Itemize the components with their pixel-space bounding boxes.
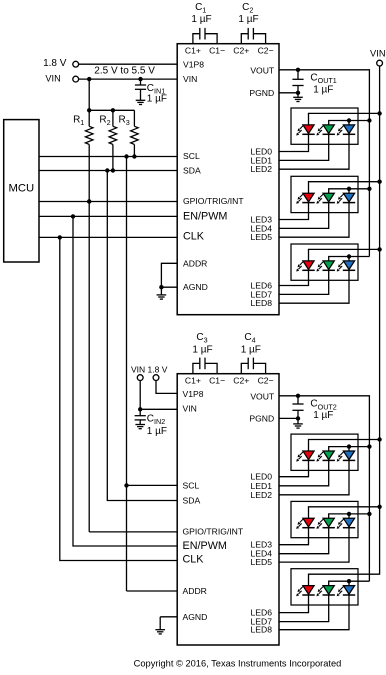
LED blue D6 <box>337 193 356 204</box>
svg-text:1 µF: 1 µF <box>147 94 167 105</box>
label C3 <box>196 332 207 344</box>
wire red LED anode to VIN rail (group LED) <box>309 574 380 586</box>
wire green/blue LED anodes to VOUT rail (group LED) <box>329 579 370 586</box>
RGB LED module box (group LED) <box>291 176 358 212</box>
wire VIN to IC2 VIN <box>138 381 177 412</box>
LED red D4 <box>296 193 315 204</box>
LED blue D9 <box>337 261 356 272</box>
svg-text:C1+: C1+ <box>185 376 201 386</box>
wire green/blue LED anodes to VOUT rail (group LED) <box>329 118 370 125</box>
label R1 <box>73 115 84 127</box>
svg-text:1 µF: 1 µF <box>313 85 333 96</box>
ground at AGND1 <box>157 287 167 299</box>
LED blue D3 <box>337 125 356 136</box>
wire blue LED cathode to LED2 pin <box>279 528 349 562</box>
label CIN2 value 1 uF <box>147 426 167 437</box>
svg-text:1 µF: 1 µF <box>192 345 212 356</box>
label CIN2 <box>147 414 165 426</box>
op-amp U1 LED driver block <box>177 44 279 315</box>
label COUT1 value 1 uF <box>313 85 333 96</box>
node VIN terminal (IC2) <box>137 375 143 381</box>
svg-text:VOUT: VOUT <box>250 391 275 401</box>
svg-text:ADDR: ADDR <box>183 258 207 268</box>
pin labels U2 right side <box>249 391 275 634</box>
MCU block <box>4 120 39 262</box>
label R2 <box>99 115 110 127</box>
wire red LED cathode to LED0 pin <box>279 135 309 152</box>
wire green/blue LED anodes to VOUT rail (group LED) <box>329 444 370 451</box>
svg-text:LED8: LED8 <box>251 625 273 635</box>
ground below CIN2 <box>135 425 145 429</box>
svg-text:SDA: SDA <box>183 496 201 506</box>
svg-text:AGND: AGND <box>183 612 208 622</box>
wire blue LED cathode to LED2 pin <box>279 595 349 629</box>
svg-text:SCL: SCL <box>183 480 200 490</box>
capacitor COUT1 <box>292 70 303 93</box>
wire EN/PWM bus branch down to IC2 EN/PWM <box>73 216 177 546</box>
LED green D2 <box>316 125 335 136</box>
LED green D14 <box>316 518 335 529</box>
node 1.8V terminal <box>73 61 79 67</box>
ground below PGND2 <box>293 418 303 428</box>
svg-text:LED2: LED2 <box>251 490 273 500</box>
LED red D7 <box>296 261 315 272</box>
pin labels U2 left side <box>183 389 244 622</box>
RGB LED module box (group LED) <box>291 244 358 280</box>
wire CLK (MCU to IC1) <box>39 235 177 239</box>
wire ADDR1 to AGND1 <box>161 263 177 287</box>
capacitor C1 <box>193 28 217 44</box>
svg-text:C2+: C2+ <box>233 46 249 56</box>
label VIN <box>45 74 60 84</box>
svg-text:1 µF: 1 µF <box>238 14 258 25</box>
wire 1.8V to V1P8 pin <box>79 63 177 65</box>
wire red LED cathode to LED0 pin <box>279 528 309 545</box>
svg-text:1.8 V: 1.8 V <box>43 58 67 69</box>
svg-text:VIN: VIN <box>370 49 386 59</box>
svg-text:VIN: VIN <box>183 74 197 84</box>
LED green D11 <box>316 451 335 462</box>
svg-text:EN/PWM: EN/PWM <box>183 540 227 552</box>
svg-text:LED5: LED5 <box>251 232 273 242</box>
ground at AGND2 <box>155 617 165 634</box>
resistor R2 <box>109 110 117 170</box>
label C1 <box>195 2 206 14</box>
wire 1.8V to IC2 V1P8 <box>156 381 177 394</box>
svg-text:SDA: SDA <box>183 166 201 176</box>
wire red LED cathode to LED0 pin <box>279 595 309 612</box>
LED red D16 <box>296 586 315 597</box>
wire green LED cathode to LED1 pin <box>279 595 329 621</box>
wire SCL bus branch down to IC2 SCL and ADDR <box>124 157 177 592</box>
LED green D17 <box>316 586 335 597</box>
wire green LED cathode to LED1 pin <box>279 203 329 228</box>
LED blue D12 <box>337 451 356 462</box>
label MCU <box>8 183 34 195</box>
svg-text:LED8: LED8 <box>251 298 273 308</box>
label VIN top right <box>370 49 386 59</box>
node VIN terminal <box>73 76 79 82</box>
RGB LED module box (group LED) <box>291 501 358 537</box>
RGB LED module box (group LED) <box>291 569 358 605</box>
svg-text:VIN: VIN <box>183 404 197 414</box>
wire EN/PWM (MCU to IC1) <box>39 214 177 218</box>
wire blue LED cathode to LED2 pin <box>279 203 349 237</box>
wire SDA bus branch down to IC2 SDA <box>107 171 177 501</box>
wire PGND1 <box>279 91 300 95</box>
wire green/blue LED anodes to VOUT rail (group LED) <box>329 254 370 261</box>
wire VOUT2 rail <box>279 394 372 582</box>
svg-text:C2−: C2− <box>258 376 274 386</box>
svg-text:C2+: C2+ <box>233 376 249 386</box>
wire VIN rail <box>309 66 382 574</box>
wire AGND1 <box>159 285 177 289</box>
svg-text:1 µF: 1 µF <box>147 426 167 437</box>
ground below CIN1 <box>136 100 146 104</box>
wire red LED cathode to LED0 pin <box>279 203 309 220</box>
wire resistor top rail <box>89 108 134 112</box>
svg-text:CLK: CLK <box>183 554 205 566</box>
wire blue LED cathode to LED2 pin <box>279 461 349 495</box>
wire red LED anode to VIN rail (group LED) <box>309 113 380 125</box>
wire SDA (MCU to IC1) <box>39 168 177 172</box>
label C4 value 1 uF <box>241 345 261 356</box>
svg-text:C1+: C1+ <box>185 46 201 56</box>
label C2 value 1 uF <box>238 14 258 25</box>
wire CLK bus branch down to IC2 CLK <box>60 237 177 560</box>
pin labels U1 top row C1+ C1- C2+ C2- <box>185 46 274 56</box>
wire GPIO/TRIG/INT (MCU to IC1) <box>39 199 177 203</box>
svg-text:LED5: LED5 <box>251 557 273 567</box>
svg-text:VIN: VIN <box>45 74 60 84</box>
svg-text:1 µF: 1 µF <box>191 14 211 25</box>
wire green/blue LED anodes to VOUT rail (group LED) <box>329 512 370 519</box>
LED red D1 <box>296 125 315 136</box>
wire red LED anode to VIN rail (group LED) <box>309 182 380 194</box>
label C1 value 1 uF <box>191 14 211 25</box>
wire red LED cathode to LED0 pin <box>279 461 309 477</box>
wire SCL (MCU to IC1) <box>39 154 177 158</box>
wire green LED cathode to LED1 pin <box>279 271 329 295</box>
label COUT2 value 1 uF <box>313 410 333 421</box>
op-amp U2 LED driver block <box>177 374 279 645</box>
RGB LED module box (group LED) <box>291 108 358 144</box>
wire red LED anode to VIN rail (group LED) <box>309 507 380 519</box>
wire R1/GPIO bus branch down to IC2 GPIO <box>87 144 177 532</box>
ground below PGND1 <box>293 93 303 102</box>
RGB LED module box (group LED) <box>291 434 358 470</box>
resistor R1 <box>85 126 93 144</box>
wire green LED cathode to LED1 pin <box>279 528 329 554</box>
label copyright notice <box>134 659 342 669</box>
wire green LED cathode to LED1 pin <box>279 461 329 486</box>
svg-text:1 µF: 1 µF <box>241 345 261 356</box>
svg-text:1 µF: 1 µF <box>313 410 333 421</box>
svg-text:EN/PWM: EN/PWM <box>183 210 227 222</box>
svg-text:ADDR: ADDR <box>183 586 207 596</box>
LED red D13 <box>296 518 315 529</box>
label 1.8 V <box>43 58 67 69</box>
label VIN 1.8 V (IC2 supplies) <box>131 364 168 374</box>
wire blue LED cathode to LED2 pin <box>279 271 349 304</box>
LED red D10 <box>296 451 315 462</box>
svg-text:PGND: PGND <box>249 88 274 98</box>
label COUT1 <box>310 72 336 84</box>
label R3 <box>118 115 129 127</box>
capacitor CIN1 <box>135 79 146 100</box>
svg-text:CLK: CLK <box>183 231 205 243</box>
svg-text:GPIO/TRIG/INT: GPIO/TRIG/INT <box>183 196 244 206</box>
node VIN terminal top right <box>377 60 383 66</box>
wire red LED anode to VIN rail (group LED) <box>309 440 380 452</box>
svg-text:GPIO/TRIG/INT: GPIO/TRIG/INT <box>183 526 244 536</box>
svg-text:V1P8: V1P8 <box>183 389 204 399</box>
wire green LED cathode to LED1 pin <box>279 135 329 161</box>
label 2.5 V to 5.5 V <box>94 66 155 77</box>
svg-text:C1−: C1− <box>209 376 225 386</box>
resistor R3 <box>131 110 139 156</box>
label C4 <box>244 332 255 344</box>
svg-text:PGND: PGND <box>249 413 274 423</box>
wire blue LED cathode to LED2 pin <box>279 135 349 170</box>
svg-text:Copyright © 2016, Texas Instru: Copyright © 2016, Texas Instruments Inco… <box>134 659 342 669</box>
capacitor C3 <box>193 358 217 374</box>
label C3 value 1 uF <box>192 345 212 356</box>
node 1.8V terminal (IC2) <box>153 375 159 381</box>
wire red LED cathode to LED0 pin <box>279 271 309 286</box>
label C2 <box>242 2 253 14</box>
label COUT2 <box>310 399 336 411</box>
label CIN1 <box>147 83 165 95</box>
svg-text:VOUT: VOUT <box>250 65 275 75</box>
svg-text:SCL: SCL <box>183 151 200 161</box>
wire PGND2 <box>279 416 300 420</box>
capacitor COUT2 <box>292 396 303 419</box>
svg-text:VIN 1.8 V: VIN 1.8 V <box>131 364 168 374</box>
wire red LED anode to VIN rail (group LED) <box>309 249 380 261</box>
LED green D5 <box>316 193 335 204</box>
wire AGND2 <box>160 616 177 618</box>
svg-text:LED2: LED2 <box>251 164 273 174</box>
wire green/blue LED anodes to VOUT rail (group LED) <box>329 187 370 194</box>
svg-text:AGND: AGND <box>183 282 208 292</box>
svg-text:2.5 V to 5.5 V: 2.5 V to 5.5 V <box>94 66 155 77</box>
pin labels U1 left side <box>183 60 244 293</box>
capacitor C4 <box>241 358 265 374</box>
label CIN1 value 1 uF <box>147 94 167 105</box>
LED green D8 <box>316 261 335 272</box>
pin labels U1 right side <box>249 65 275 308</box>
svg-text:C2−: C2− <box>258 46 274 56</box>
capacitor CIN2 <box>135 409 146 424</box>
svg-text:V1P8: V1P8 <box>183 60 204 70</box>
LED blue D18 <box>337 586 356 597</box>
pin labels U2 top row C1+ C1- C2+ C2- <box>185 376 274 386</box>
wire VOUT1 rail <box>279 68 372 257</box>
wire VIN branch down to resistor tops <box>87 79 91 126</box>
svg-text:MCU: MCU <box>8 183 34 195</box>
LED blue D15 <box>337 518 356 529</box>
capacitor C2 <box>241 28 265 44</box>
wire VIN to VIN pin <box>79 77 177 81</box>
svg-text:C1−: C1− <box>209 46 225 56</box>
